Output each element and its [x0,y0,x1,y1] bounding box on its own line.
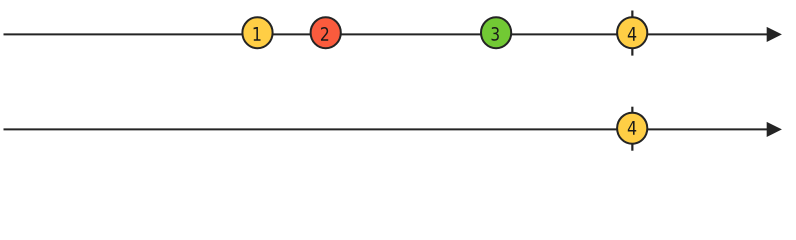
node 4: yellow circle, timeline 2 [617,113,647,144]
node 3: green circle [481,17,511,48]
node 1: yellow circle [242,17,272,48]
node 4: yellow circle, timeline 1 [617,17,647,48]
label 4 (timeline 2) [628,121,636,135]
arrowhead: timeline 2 [767,122,782,137]
label 2 [321,27,328,41]
label 3 [492,27,499,41]
tick: event marker through node 4, timeline 1 [631,11,633,56]
label 4 [628,27,636,41]
wire: timeline 1 shaft [4,33,768,35]
arrowhead: timeline 1 [767,27,782,42]
tick: event marker through node 4, timeline 2 [631,107,633,151]
wire: timeline 2 shaft [4,128,768,130]
label 1 [254,27,261,41]
node 2: red circle [311,17,341,48]
